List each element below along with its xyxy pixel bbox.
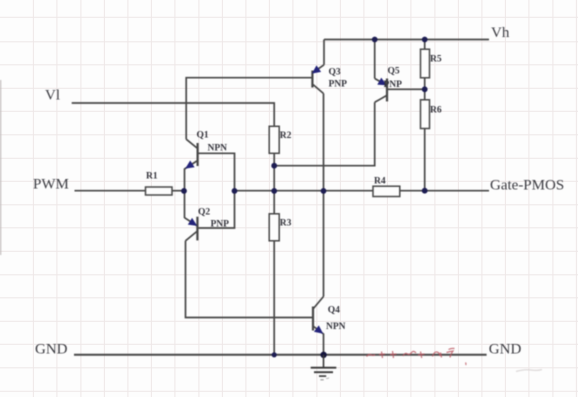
wire emitter junction vertical [184, 169, 186, 219]
node Q4 emitter GND [320, 352, 326, 358]
wire Q3 collector to Q4 collector [323, 94, 325, 297]
node R2 bottom to Q5 [271, 163, 277, 169]
resistor R2 [269, 126, 291, 153]
ground [311, 355, 337, 380]
svg-text:GND: GND [35, 342, 68, 358]
node emitter junction [181, 188, 187, 194]
svg-text:R5: R5 [430, 55, 442, 65]
wire R2 node to Q5 collector [274, 102, 375, 165]
wire top rail Vh [324, 39, 489, 41]
wire Q3 emitter riser [323, 40, 325, 65]
gray smudge right [516, 370, 542, 372]
node R6 gate rail [422, 188, 428, 194]
svg-text:Q4: Q4 [328, 306, 340, 316]
wire Vh to R5 top [424, 40, 426, 50]
node Q3Q4 collectors [321, 188, 327, 194]
wire PWM to R1 [75, 190, 146, 192]
wire R3 bottom to GND [273, 241, 275, 355]
wire R4 to Gate-PMOS [400, 190, 489, 192]
resistor R1 [146, 172, 173, 196]
svg-text:Vh: Vh [491, 25, 510, 41]
wire Q4 emitter to GND [323, 334, 325, 355]
transistor Q3 [312, 65, 347, 94]
wire R5 to R6 [424, 78, 426, 100]
node Q5 emitter top rail [372, 37, 378, 43]
wire R6 bottom to Gate-PMOS rail [424, 129, 426, 191]
svg-text:R3: R3 [280, 219, 292, 229]
node R5 top rail [422, 37, 428, 43]
resistor R4 [373, 177, 400, 197]
svg-text:R6: R6 [430, 106, 442, 116]
svg-text:Q1: Q1 [197, 131, 209, 141]
svg-text:PNP: PNP [211, 220, 230, 230]
svg-text:R4: R4 [374, 177, 386, 187]
wire Q5 emitter riser [374, 40, 376, 79]
svg-text:Vl: Vl [45, 88, 60, 104]
svg-text:Q3: Q3 [329, 68, 341, 78]
wire base rail node to R4 [235, 190, 374, 192]
wire R1 to emitter node [172, 190, 185, 192]
resistor R6 [421, 100, 442, 129]
wire R2 bottom to R3 top [273, 153, 275, 214]
transistor Q4 [313, 297, 346, 335]
node R3 GND [272, 352, 277, 357]
svg-text:R1: R1 [146, 172, 158, 182]
svg-text:Gate-PMOS: Gate-PMOS [490, 178, 564, 194]
svg-text:PWM: PWM [33, 177, 69, 193]
wire Q2 collector to Q4 base [186, 241, 314, 318]
svg-text:Q5: Q5 [388, 67, 400, 77]
svg-text:R2: R2 [280, 131, 292, 141]
svg-text:Q2: Q2 [198, 208, 210, 218]
svg-text:PNP: PNP [329, 80, 348, 90]
wire bases Q1-Q2 [197, 153, 234, 228]
transistor Q5 [375, 67, 402, 103]
svg-text:GND: GND [489, 342, 522, 358]
transistor Q1 [185, 131, 228, 170]
node Q5 base R5R6 [422, 86, 428, 92]
wire Q1 collector to Q3 base [186, 78, 312, 140]
wire Q5 base [387, 88, 425, 90]
svg-text:PNP: PNP [384, 80, 403, 90]
node bases junction [232, 188, 238, 194]
resistor R5 [421, 49, 442, 78]
svg-text:NPN: NPN [326, 322, 346, 332]
node R2R3 mid rail [271, 188, 277, 194]
wire Vl line to R2 top [72, 103, 275, 126]
red watermark squiggle [367, 348, 466, 365]
left edge artifact [0, 80, 2, 255]
svg-text:NPN: NPN [208, 144, 228, 154]
resistor R3 [269, 214, 291, 241]
transistor Q2 [185, 208, 230, 241]
wire GND rail [74, 354, 487, 356]
